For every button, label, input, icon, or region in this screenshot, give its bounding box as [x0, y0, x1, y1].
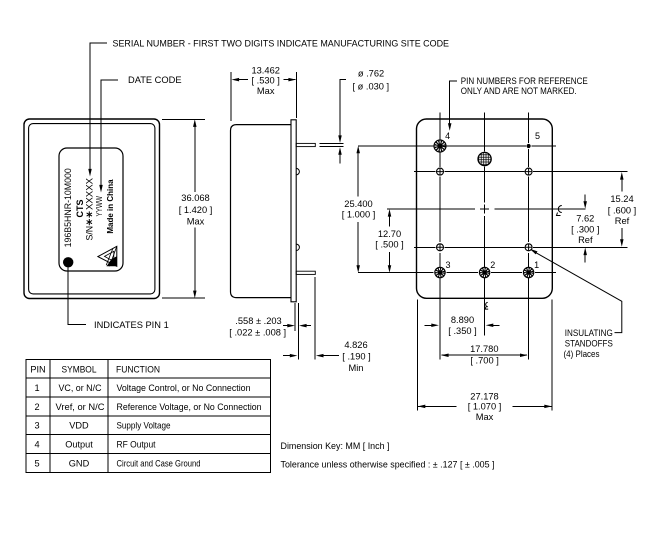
- svg-text:7.62: 7.62: [576, 213, 594, 223]
- svg-text:2: 2: [34, 402, 39, 412]
- centerline symbol right: [557, 206, 562, 216]
- svg-text:VDD: VDD: [69, 421, 89, 431]
- svg-text:Reference Voltage, or No Conne: Reference Voltage, or No Connection: [117, 402, 262, 412]
- svg-text:PIN: PIN: [30, 364, 45, 374]
- dimension .558 standoff height: [283, 303, 311, 360]
- svg-text:SERIAL NUMBER - FIRST TWO DIGI: SERIAL NUMBER - FIRST TWO DIGITS INDICAT…: [113, 38, 450, 48]
- dimension 27.178: [418, 405, 552, 409]
- dimension 12.70: [388, 209, 392, 273]
- svg-text:1: 1: [534, 260, 539, 270]
- leader indicates pin 1: [68, 268, 86, 325]
- svg-text:Ref: Ref: [578, 235, 593, 245]
- svg-text:4.826: 4.826: [344, 340, 367, 350]
- svg-text:[ .530 ]: [ .530 ]: [251, 76, 279, 86]
- centerline symbol bottom: [485, 302, 488, 309]
- svg-text:GND: GND: [69, 458, 90, 468]
- svg-text:[ .022 ± .008 ]: [ .022 ± .008 ]: [229, 327, 286, 337]
- svg-text:XXXXX: XXXXX: [84, 178, 94, 210]
- side view base plate: [291, 120, 296, 302]
- svg-text:VC, or N/C: VC, or N/C: [59, 383, 102, 393]
- svg-text:Min: Min: [349, 363, 364, 373]
- CTS logo triangle: [98, 246, 117, 266]
- centerline row standoffs upper: [414, 171, 628, 173]
- dimension 7.62: [583, 195, 587, 263]
- center cross mark: [480, 205, 489, 214]
- svg-text:FUNCTION: FUNCTION: [116, 364, 160, 374]
- svg-text:ONLY AND ARE NOT MARKED.: ONLY AND ARE NOT MARKED.: [461, 86, 577, 96]
- leader insulating standoffs: [530, 249, 622, 333]
- dimension 4.826 pin length: [283, 277, 339, 360]
- centerline row middle: [387, 208, 585, 210]
- svg-text:STANDOFFS: STANDOFFS: [565, 339, 613, 349]
- svg-text:[ 1.420 ]: [ 1.420 ]: [179, 205, 213, 215]
- side view bottom pin: [296, 271, 315, 274]
- centerline row standoffs lower: [414, 246, 628, 248]
- svg-text:Output: Output: [65, 440, 93, 450]
- side view standoff bump bottom: [296, 244, 299, 250]
- svg-text:3: 3: [445, 260, 450, 270]
- svg-text:1: 1: [34, 383, 39, 393]
- PIN TABLE: [26, 360, 271, 473]
- svg-text:196B5HNR-10M000: 196B5HNR-10M000: [63, 168, 73, 247]
- svg-text:15.24: 15.24: [610, 194, 633, 204]
- insulating standoff lower left: [437, 244, 444, 251]
- bottom view case: [417, 119, 553, 298]
- leader serial number: [88, 43, 107, 176]
- svg-text:36.068: 36.068: [181, 193, 209, 203]
- svg-text:Ref: Ref: [615, 216, 630, 226]
- svg-text:Voltage Control, or No Connect: Voltage Control, or No Connection: [117, 383, 251, 393]
- side view body: [231, 125, 292, 298]
- svg-text:27.178: 27.178: [470, 392, 498, 402]
- svg-text:YYWW: YYWW: [95, 196, 104, 217]
- svg-text:SYMBOL: SYMBOL: [62, 364, 97, 374]
- svg-text:PIN NUMBERS FOR REFERENCE: PIN NUMBERS FOR REFERENCE: [461, 76, 588, 86]
- leader pin diameter: [320, 79, 347, 163]
- centerline row pins 1 2 3: [358, 272, 556, 274]
- extension lines bottom view outer: [417, 300, 552, 411]
- pin 2: [479, 267, 489, 277]
- leader date code: [99, 80, 118, 193]
- vent hole hatched: [478, 152, 491, 165]
- svg-text:17.780: 17.780: [470, 344, 498, 354]
- svg-text:[ .600 ]: [ .600 ]: [608, 206, 636, 216]
- dimension 15.24: [620, 172, 624, 247]
- product label outline: [59, 148, 123, 271]
- svg-text:4: 4: [34, 440, 39, 450]
- svg-text:12.70: 12.70: [378, 229, 401, 239]
- svg-text:.558 ± .203: .558 ± .203: [235, 316, 281, 326]
- side view top pin: [296, 143, 315, 146]
- leader pin numbers note: [448, 81, 457, 131]
- svg-text:5: 5: [34, 458, 39, 468]
- svg-text:[ 1.070 ]: [ 1.070 ]: [468, 402, 502, 412]
- pin 1 indicator dot: [63, 257, 73, 267]
- svg-text:Max: Max: [187, 216, 205, 226]
- svg-text:S/N: S/N: [84, 226, 94, 241]
- svg-text:Tolerance unless otherwise spe: Tolerance unless otherwise specified : ±…: [281, 460, 495, 470]
- centerline column A: [439, 113, 441, 360]
- dimension 25.400: [356, 146, 360, 273]
- svg-text:Made in China: Made in China: [106, 179, 115, 234]
- insulating standoff upper right: [525, 168, 532, 175]
- dimension 36.068 height: [162, 119, 205, 298]
- svg-text:[ 1.000 ]: [ 1.000 ]: [342, 210, 376, 220]
- pin 4: [434, 140, 446, 152]
- svg-text:2: 2: [490, 260, 495, 270]
- centerline column B: [484, 113, 486, 336]
- insulating standoff upper left: [437, 168, 444, 175]
- svg-text:RF Output: RF Output: [117, 440, 156, 450]
- svg-text:Supply Voltage: Supply Voltage: [117, 421, 171, 431]
- svg-text:13.462: 13.462: [251, 65, 279, 75]
- svg-text:3: 3: [34, 421, 39, 431]
- pin 1: [523, 267, 533, 277]
- centerline row pins 4 5: [358, 145, 556, 147]
- side view standoff bump top: [296, 168, 299, 174]
- front view outer case: [24, 119, 160, 299]
- svg-text:[ .300 ]: [ .300 ]: [571, 225, 599, 235]
- svg-text:25.400: 25.400: [344, 199, 372, 209]
- centerline column C: [528, 113, 530, 360]
- front view inner case line: [29, 124, 155, 294]
- pin 5 dot: [527, 144, 531, 148]
- svg-text:[ .700 ]: [ .700 ]: [470, 355, 498, 365]
- svg-text:[ ø .030 ]: [ ø .030 ]: [352, 81, 389, 91]
- svg-text:(4) Places: (4) Places: [564, 349, 600, 359]
- svg-text:ø .762: ø .762: [358, 68, 384, 78]
- svg-text:Vref, or N/C: Vref, or N/C: [56, 402, 105, 412]
- svg-text:[ .190 ]: [ .190 ]: [342, 351, 370, 361]
- svg-text:Max: Max: [257, 86, 275, 96]
- dimension 13.462 thickness: [231, 72, 297, 121]
- svg-text:Max: Max: [476, 412, 494, 422]
- svg-text:4: 4: [445, 131, 450, 141]
- svg-text:Circuit and Case Ground: Circuit and Case Ground: [117, 458, 201, 468]
- insulating standoff lower right: [525, 244, 532, 251]
- svg-text:8.890: 8.890: [451, 315, 474, 325]
- svg-text:[ .500 ]: [ .500 ]: [375, 239, 403, 249]
- label star glyphs: [87, 211, 92, 225]
- svg-text:Dimension Key: MM [ Inch ]: Dimension Key: MM [ Inch ]: [281, 441, 390, 451]
- svg-text:DATE CODE: DATE CODE: [128, 75, 182, 85]
- svg-text:INSULATING: INSULATING: [565, 328, 613, 338]
- svg-text:INDICATES PIN 1: INDICATES PIN 1: [94, 320, 169, 330]
- dimension 8.890: [425, 324, 500, 328]
- svg-text:5: 5: [535, 131, 540, 141]
- svg-text:[ .350 ]: [ .350 ]: [448, 326, 476, 336]
- pin 3: [435, 267, 445, 277]
- dimension 17.780: [441, 353, 528, 357]
